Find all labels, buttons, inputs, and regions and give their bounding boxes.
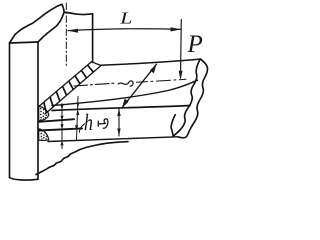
bottom fillet weld section (stippled) [39, 129, 49, 141]
oblique dimension arrowheads [122, 99, 129, 108]
stipple dots for weld sections [40, 108, 48, 140]
beam near-wall line lower [39, 128, 82, 130]
beam front bottom edge [48, 137, 178, 142]
wall top-right broken edge [38, 12, 64, 42]
beam broken end outer jag [178, 59, 208, 138]
beam front ridge line [52, 80, 198, 105]
centerline tilde squiggle [118, 81, 133, 86]
dimension L line with arrows [68, 29, 182, 31]
wall right vertical edge [37, 42, 39, 179]
b dimension arrowheads [117, 109, 120, 117]
oblique width dimension line [122, 64, 157, 108]
wall front top edge [10, 42, 39, 43]
weld bead band top cap [92, 62, 102, 66]
svg-text:h: h [84, 111, 93, 136]
weld bead band upper edge [39, 62, 92, 107]
h dimension vertical near wall [61, 104, 63, 149]
b dimension vertical [118, 109, 120, 137]
svg-text:L: L [119, 9, 132, 27]
label b (rotated, hand-drawn) [98, 119, 108, 128]
h dimension vertical second [77, 97, 79, 141]
h dim arrowheads on x=77 vertical [76, 103, 79, 108]
load P arrow [180, 19, 183, 72]
wall top-left broken edge [10, 4, 93, 43]
top fillet weld section (stippled) [39, 106, 49, 121]
wall rear vertical edge [92, 14, 94, 62]
weld plane dash-dot line [65, 3, 67, 68]
centerline dash-dot left part [74, 83, 117, 86]
beam broken end spur [171, 115, 175, 137]
beam rear top edge [101, 59, 201, 65]
beam broken end inner jag [173, 60, 200, 137]
wall bottom break edge [10, 178, 38, 181]
h label leader curl [79, 124, 84, 132]
svg-text:P: P [187, 31, 203, 58]
weld bead ribs [44, 103, 46, 112]
beam near-wall line upper [39, 119, 74, 122]
beam front face line [52, 106, 190, 111]
centerline dash-dot right part [137, 79, 187, 82]
h dim arrowheads on x=62 vertical [60, 105, 63, 110]
wall/beam lower break wavy line [36, 142, 128, 175]
weld bead band lower edge [45, 66, 101, 115]
wall left vertical edge [9, 43, 11, 178]
